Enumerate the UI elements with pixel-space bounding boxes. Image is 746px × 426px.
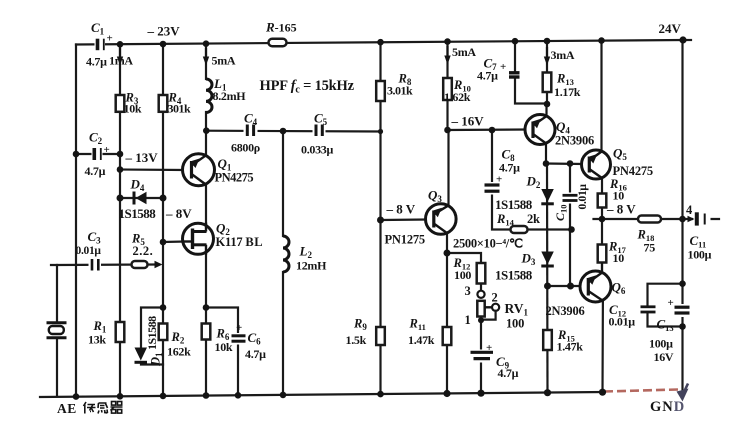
wire sensor drop upper (51, 265, 57, 322)
svg-text:1.47k: 1.47k (408, 333, 435, 347)
junction dot D4 left (117, 195, 124, 202)
label AE sensor chinese chuan (84, 402, 96, 414)
wire R8 R9 branch (379, 42, 381, 395)
junction dot R13 bottom (544, 101, 551, 108)
svg-text:AE: AE (57, 401, 77, 416)
junction dot output riser (679, 216, 686, 223)
svg-text:10: 10 (613, 251, 625, 265)
wire L1 to C4 node to Q1 (205, 112, 207, 156)
wire L2 to ground (282, 272, 284, 396)
junction dot C2 right (117, 151, 124, 158)
junction dot -8V R16 (599, 216, 606, 223)
current arrow 5mA at R10 (444, 46, 450, 65)
wire R13 branch (546, 41, 548, 105)
arrow R5 to gate node (155, 261, 163, 268)
svg-text:1S1588: 1S1588 (119, 206, 157, 221)
junction dot C12 top (679, 280, 686, 287)
svg-text:2k: 2k (527, 212, 540, 226)
resistor R16 10 (598, 194, 607, 208)
wire R17 branch (601, 219, 603, 273)
svg-text:5mA: 5mA (212, 54, 236, 68)
junction dot R14 right (568, 226, 575, 233)
junction dot Q3 collector node (444, 250, 451, 257)
junction dot Q1 base (117, 166, 124, 173)
AE sensor element (47, 323, 67, 338)
inductor L2 12mH (283, 236, 289, 272)
svg-text:75: 75 (644, 241, 656, 255)
svg-text:PN1275: PN1275 (385, 233, 425, 247)
wire R10 branch (446, 41, 448, 130)
junction dot C4C5 right (378, 129, 383, 134)
transistor Q3 PN1275 (426, 204, 457, 235)
svg-text:4.7μ: 4.7μ (85, 164, 106, 178)
resistor R-165 (269, 39, 287, 46)
wire bottom ground rail (40, 392, 604, 397)
junction dot Q4 collector node (543, 160, 550, 167)
resistor R11 1.47k (443, 327, 452, 345)
junction dot Q3 base (377, 217, 384, 224)
wire ground red dashed segment (604, 390, 678, 392)
svg-text:1: 1 (465, 313, 471, 327)
current arrow 1mA (117, 48, 123, 66)
svg-text:2.2.: 2.2. (133, 244, 154, 258)
resistor R3 10k (116, 95, 125, 112)
capacitor C9 4.7u (470, 350, 494, 363)
wire Q2 gate link (163, 240, 184, 243)
junction dot -16V node (444, 127, 451, 134)
svg-text:+: + (236, 322, 242, 334)
svg-text:2: 2 (492, 291, 498, 305)
label AE sensor chinese gan (98, 403, 108, 414)
wire Q5 collector R16 to -8V node (601, 177, 603, 219)
svg-text:R-165: R-165 (265, 20, 297, 35)
svg-text:0.01μ: 0.01μ (76, 245, 102, 257)
junction dots ground rail (73, 389, 606, 400)
wire C6 to ground (237, 342, 239, 396)
diode D2 1S1588 (541, 189, 554, 204)
svg-text:0.01μ: 0.01μ (609, 315, 636, 329)
ground end pen mark (684, 384, 689, 394)
svg-text:10: 10 (613, 189, 625, 203)
svg-text:100μ: 100μ (649, 337, 673, 351)
wire right side vertical 24V to output (681, 40, 683, 390)
wire D4 link (120, 197, 163, 199)
wire top supply rail (76, 40, 683, 45)
output terminal 4 arrow (688, 216, 695, 223)
svg-text:10k: 10k (124, 102, 142, 116)
capacitor C5 0.033u (313, 124, 326, 137)
resistor R6 10k (202, 324, 211, 340)
wire L1 Q1 Q2 branch top (205, 44, 207, 79)
svg-text:1S1588: 1S1588 (495, 268, 533, 283)
svg-text:2500×10−⁴/℃: 2500×10−⁴/℃ (453, 237, 523, 251)
transistor Q4 2N3906 (525, 104, 555, 164)
wire D1 bottom connector (141, 363, 163, 365)
resistor R15 1.47k (543, 330, 552, 350)
resistor R10 1.62k (443, 78, 452, 100)
wire R12 corner from Q3 collector node (447, 253, 481, 291)
svg-text:+: + (107, 33, 113, 45)
wire L2 branch (282, 131, 284, 236)
wire Q3 emitter riser (447, 130, 449, 206)
svg-text:– 8V: – 8V (165, 206, 192, 221)
transistor Q1 PN4275 (183, 154, 215, 186)
svg-text:– 23V: – 23V (147, 24, 181, 39)
capacitor C4 6800p (244, 124, 258, 137)
svg-text:HPF fc = 15kHz: HPF fc = 15kHz (260, 78, 355, 96)
current arrow 5mA at L1 (203, 48, 209, 66)
wire C6 link (206, 308, 238, 336)
svg-text:PN4275: PN4275 (215, 171, 254, 185)
capacitor C2 4.7u (92, 146, 103, 162)
wire D1 branch (141, 308, 163, 349)
resistor R1 13k (116, 322, 125, 342)
svg-text:1.17k: 1.17k (554, 85, 581, 99)
wire C8 hang from -16V line (491, 130, 493, 184)
wire C12 loop bottom (648, 313, 683, 327)
inductor L1 8.2mH (206, 79, 212, 113)
wire C7 to R13 node (515, 78, 547, 104)
svg-text:1.62k: 1.62k (444, 90, 471, 104)
svg-text:100: 100 (454, 268, 471, 282)
wire C7 branch from rail (514, 41, 516, 72)
resistor R12 100 (477, 263, 486, 284)
svg-text:4.7μ: 4.7μ (245, 347, 266, 361)
svg-text:0.033μ: 0.033μ (301, 143, 334, 157)
svg-text:PN4275: PN4275 (613, 164, 653, 178)
svg-text:– 16V: – 16V (451, 114, 485, 129)
junction dot D4 right (160, 195, 167, 202)
junction dot Q6 base C10 (567, 283, 574, 290)
junction dot C12 bottom (679, 323, 686, 330)
svg-text:+: + (104, 144, 110, 156)
wire branch R4/R2 vertical (162, 44, 164, 397)
svg-text:4: 4 (686, 203, 693, 217)
svg-text:24V: 24V (659, 21, 682, 36)
wire Q4 collector D2 D3 chain to ground (546, 163, 549, 395)
svg-text:100μ: 100μ (688, 248, 712, 262)
svg-text:K117 BL: K117 BL (216, 235, 264, 249)
wire C8 bottom to R14 (492, 193, 572, 230)
junction dot L1 C4 node (203, 127, 210, 134)
svg-text:4.7μ: 4.7μ (498, 366, 519, 380)
wire Q1 collector to Q2 drain (205, 183, 207, 224)
current arrow 3mA at R13 (544, 47, 550, 66)
svg-text:0.01μ: 0.01μ (577, 184, 589, 210)
capacitor C10 0.01u (562, 193, 579, 204)
resistor R9 1.5k (376, 327, 385, 345)
resistor R14 2k (511, 226, 528, 233)
capacitor C7 4.7u (509, 73, 520, 77)
wire Q3 base link (381, 218, 427, 221)
svg-text:3.01k: 3.01k (387, 84, 413, 98)
resistor R18 75 (638, 216, 661, 223)
svg-text:– 8 V: – 8 V (606, 202, 636, 217)
capacitor C12 0.01u (641, 307, 656, 312)
wire branch R3/R1 vertical (119, 44, 121, 397)
svg-text:+: + (668, 297, 674, 309)
svg-text:10k: 10k (215, 340, 233, 354)
capacitor C11 100u output (693, 211, 711, 228)
resistor R5 2.2 (132, 261, 148, 268)
wire RV1 pin1 to C9 to ground (480, 321, 482, 395)
wire Q3 collector to R11 to ground (446, 232, 448, 395)
diode D3 1S1588 (541, 252, 554, 267)
wire C2 link (76, 153, 120, 155)
wire C10 lower to Q6 base line (569, 202, 571, 287)
capacitor C1 4.7u (95, 36, 106, 53)
resistor R4 301k (159, 95, 168, 112)
svg-text:1.47k: 1.47k (557, 340, 584, 354)
svg-text:+: + (496, 174, 502, 186)
wire C3 R5 gate line (57, 263, 157, 266)
junction dot D1 top (160, 304, 167, 311)
junction dot C8 top (489, 127, 496, 134)
wire C10 branch (569, 164, 571, 195)
junction dot C2 left (73, 151, 80, 158)
svg-text:3mA: 3mA (551, 48, 575, 62)
svg-text:1S1588: 1S1588 (495, 197, 533, 212)
svg-text:2N3906: 2N3906 (555, 134, 594, 148)
transistor Q2 K117 jfet (183, 223, 214, 255)
svg-text:100: 100 (506, 317, 524, 331)
capacitor C13 100u 16V (674, 304, 691, 317)
svg-text:16V: 16V (654, 350, 674, 364)
diode D4 1S1588 (134, 192, 147, 205)
svg-text:– 13V: – 13V (125, 150, 159, 165)
junction dot Q2 gate (160, 239, 167, 246)
junction dot C10 top (567, 160, 574, 167)
svg-text:4.7μ: 4.7μ (499, 161, 520, 175)
wire Q1 base line (120, 168, 184, 171)
svg-text:6800ρ: 6800ρ (231, 141, 260, 155)
junction dot Q6 base D3 (544, 283, 551, 290)
resistor R17 10 (598, 245, 607, 263)
wire Q4 to Q5 base line (546, 162, 583, 165)
transistor Q5 PN4275 (582, 150, 611, 179)
svg-text:GND: GND (650, 399, 685, 415)
potentiometer RV1 100 (477, 291, 499, 324)
svg-text:4.7μ: 4.7μ (86, 55, 107, 69)
capacitor C3 0.01u (89, 258, 102, 272)
transistor Q6 2N3906 (580, 263, 611, 303)
wire Q5 emitter riser from rail (600, 41, 602, 152)
resistor R2 162k (159, 324, 168, 341)
svg-text:2N3906: 2N3906 (546, 304, 585, 318)
svg-text:1.5k: 1.5k (346, 333, 367, 347)
resistor R8 3.01k (376, 81, 385, 101)
svg-text:3: 3 (465, 284, 471, 298)
svg-text:+: + (500, 61, 506, 73)
wire Q6 collector to ground (601, 300, 604, 393)
capacitor C6 4.7u (231, 333, 247, 345)
junction dot R7 C6 node (203, 304, 210, 311)
wire C12 parallel loop (648, 284, 683, 306)
svg-text:1mA: 1mA (109, 54, 133, 68)
svg-text:4.7μ: 4.7μ (477, 69, 498, 83)
wire left side vertical (75, 45, 77, 397)
svg-text:162k: 162k (167, 345, 191, 359)
svg-text:– 8 V: – 8 V (386, 202, 416, 217)
wire -16V line to Q4 base (448, 128, 527, 131)
svg-text:+: + (486, 342, 492, 354)
svg-text:8.2mH: 8.2mH (213, 89, 247, 103)
label AE sensor chinese qi (111, 402, 123, 414)
svg-text:12mH: 12mH (296, 259, 327, 273)
svg-text:301k: 301k (168, 102, 192, 116)
wire Q2 source down to ground (205, 250, 207, 397)
diode D1 1S1588 (135, 348, 148, 363)
junction dots top rail (117, 36, 687, 47)
junction dot L2 top (280, 128, 287, 135)
wire Q6 base link (548, 285, 582, 287)
wire C4 C5 highpass line (206, 130, 381, 133)
svg-text:5mA: 5mA (452, 45, 476, 59)
capacitor C8 4.7u (483, 182, 501, 195)
resistor R13 1.17k (543, 73, 552, 93)
svg-text:13k: 13k (88, 333, 106, 347)
wire sensor drop lower (56, 340, 58, 396)
svg-text:1S1588: 1S1588 (145, 316, 159, 350)
wire -8V output line (594, 218, 720, 220)
